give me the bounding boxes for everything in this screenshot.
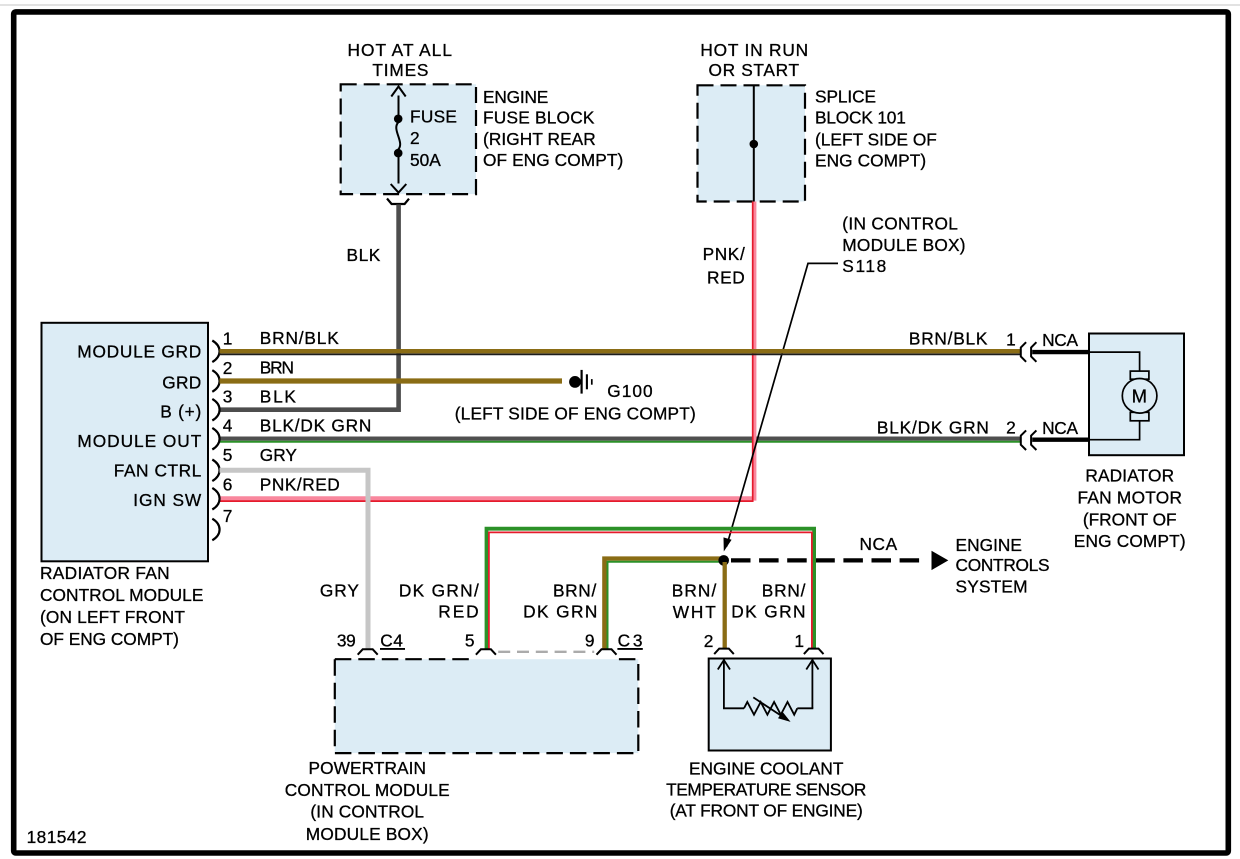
connector line C4-C3 (gray dashed) [498, 651, 594, 653]
svg-text:NCA: NCA [1042, 330, 1079, 350]
module pin label MODULE GRD [77, 342, 201, 362]
svg-text:BLK: BLK [347, 245, 381, 265]
svg-text:9: 9 [585, 631, 595, 651]
splice S118 [718, 555, 729, 566]
wire NCA dashed S118 to engine controls [731, 551, 948, 570]
label (IN CONTROL MODULE BOX) S118 [842, 214, 966, 277]
svg-text:(AT FRONT OF ENGINE): (AT FRONT OF ENGINE) [670, 801, 864, 821]
svg-text:GRY: GRY [320, 580, 360, 600]
wire DK GRN/RED PCM pin 5 to sensor pin 1 [487, 529, 815, 650]
module pin label FAN CTRL [114, 461, 202, 481]
splice block junction dot [750, 140, 759, 149]
svg-text:6: 6 [223, 475, 233, 495]
svg-text:SYSTEM: SYSTEM [956, 577, 1029, 597]
svg-text:ENGINE: ENGINE [956, 535, 1023, 555]
svg-text:C3: C3 [618, 631, 643, 651]
module pin label GRD [162, 372, 202, 392]
PCM pin 39 C4 [337, 631, 405, 655]
svg-text:RED: RED [438, 602, 479, 622]
splice block internal wire [753, 85, 755, 201]
radiator fan control module box [42, 323, 209, 562]
svg-text:CONTROL MODULE: CONTROL MODULE [285, 780, 451, 800]
module pin label IGN SW [133, 490, 202, 510]
svg-text:RED: RED [707, 267, 745, 287]
svg-text:M: M [1132, 385, 1148, 406]
label DK GRN/RED [399, 580, 479, 621]
svg-text:BRN/: BRN/ [672, 581, 717, 601]
svg-text:TIMES: TIMES [372, 60, 429, 80]
svg-text:ENGINE: ENGINE [483, 87, 549, 107]
wire BLK fuse to B(+) [220, 205, 399, 410]
PCM pin 5 [465, 631, 496, 655]
label BRN (left) [260, 358, 295, 378]
label BRN/BLK (right) and pin 1 of motor [909, 329, 1016, 350]
thermistor RT1 [718, 660, 819, 722]
label G100 [607, 381, 653, 401]
svg-text:(IN CONTROL: (IN CONTROL [310, 802, 424, 822]
engine fuse block box [341, 84, 476, 194]
label (LEFT SIDE OF ENG COMPT) [455, 404, 697, 424]
svg-text:4: 4 [223, 415, 233, 435]
svg-text:C4: C4 [380, 631, 403, 651]
svg-text:HOT IN RUN: HOT IN RUN [700, 40, 808, 60]
svg-text:BLK/DK GRN: BLK/DK GRN [260, 415, 372, 435]
svg-text:BRN/: BRN/ [553, 580, 597, 600]
label POWERTRAIN CONTROL MODULE [285, 758, 451, 844]
label BLK (vertical wire) [347, 245, 381, 265]
svg-text:IGN SW: IGN SW [133, 490, 202, 510]
svg-text:DK GRN/: DK GRN/ [399, 580, 479, 600]
ground G100 [569, 370, 592, 394]
radiator fan motor box [1089, 334, 1184, 456]
label SPLICE BLOCK 101 [815, 87, 937, 171]
wire BLK/DK GRN pin 4 to motor [220, 439, 1021, 442]
svg-text:NCA: NCA [860, 534, 898, 554]
svg-text:(ON LEFT FRONT: (ON LEFT FRONT [40, 607, 186, 627]
svg-text:7: 7 [223, 506, 233, 526]
svg-text:OF ENG COMPT): OF ENG COMPT) [483, 150, 624, 170]
connector below fuse block [387, 199, 409, 205]
sensor pin 1 [794, 631, 823, 654]
svg-text:S118: S118 [842, 256, 887, 276]
label BRN/BLK (left) [260, 328, 340, 348]
module pin 7 [212, 506, 233, 541]
svg-text:FAN MOTOR: FAN MOTOR [1078, 488, 1183, 508]
label FUSE 2 50A [410, 106, 458, 170]
svg-text:1: 1 [223, 328, 233, 348]
svg-text:BLK: BLK [260, 387, 297, 407]
module pin 4 [212, 415, 233, 449]
svg-text:MODULE BOX): MODULE BOX) [842, 235, 966, 255]
label HOT AT ALL TIMES [348, 40, 453, 80]
svg-text:BRN/: BRN/ [762, 580, 806, 600]
splice block 101 box [698, 85, 806, 201]
label RADIATOR FAN CONTROL MODULE [40, 563, 204, 649]
svg-text:FUSE BLOCK: FUSE BLOCK [483, 108, 595, 128]
svg-text:OF ENG COMPT): OF ENG COMPT) [40, 629, 179, 649]
label BRN/WHT [672, 581, 717, 622]
svg-text:(RIGHT REAR: (RIGHT REAR [483, 129, 596, 149]
svg-text:50A: 50A [410, 150, 441, 170]
leader line to splice S118 [724, 263, 839, 551]
wire BRN/WHT S118 to sensor pin 2 [723, 562, 727, 649]
svg-text:BRN/BLK: BRN/BLK [909, 329, 988, 349]
svg-text:ENG COMPT): ENG COMPT) [1074, 531, 1186, 551]
sensor pin 2 [704, 631, 734, 654]
svg-text:FAN CTRL: FAN CTRL [114, 461, 202, 481]
svg-text:(IN CONTROL: (IN CONTROL [842, 214, 958, 234]
svg-text:GRY: GRY [260, 445, 298, 465]
svg-text:BRN/BLK: BRN/BLK [260, 328, 340, 348]
svg-text:RADIATOR: RADIATOR [1085, 465, 1174, 485]
svg-text:39: 39 [337, 631, 356, 651]
svg-text:DK GRN: DK GRN [731, 602, 806, 622]
svg-text:CONTROL MODULE: CONTROL MODULE [40, 585, 204, 605]
svg-text:TEMPERATURE SENSOR: TEMPERATURE SENSOR [666, 780, 867, 800]
svg-text:ENG COMPT): ENG COMPT) [815, 151, 927, 171]
svg-text:MODULE OUT: MODULE OUT [77, 431, 201, 451]
module pin 1 [212, 328, 233, 362]
svg-text:FUSE: FUSE [410, 106, 458, 126]
label NCA (dashed wire) [860, 534, 898, 554]
wire BRN pin 2 to G100 [220, 378, 563, 383]
svg-text:MODULE GRD: MODULE GRD [77, 342, 201, 362]
svg-text:DK GRN: DK GRN [523, 602, 598, 622]
svg-text:GRD: GRD [162, 372, 202, 392]
svg-text:ENGINE COOLANT: ENGINE COOLANT [689, 758, 844, 778]
fuse F2 50A [391, 87, 407, 193]
label 181542 [27, 827, 88, 847]
in-line connector at motor pin 1 [1021, 330, 1090, 362]
svg-text:OR START: OR START [708, 60, 799, 80]
motor internal wiring [1090, 352, 1140, 440]
label BLK/DK GRN (right) and pin 2 of motor [877, 417, 1016, 437]
svg-text:(LEFT SIDE OF: (LEFT SIDE OF [815, 129, 937, 149]
label ENGINE FUSE BLOCK [483, 87, 624, 170]
svg-text:PNK/: PNK/ [703, 244, 746, 264]
svg-text:MODULE BOX): MODULE BOX) [306, 824, 429, 844]
svg-text:NCA: NCA [1042, 418, 1079, 438]
svg-text:BLK/DK GRN: BLK/DK GRN [877, 417, 990, 437]
svg-text:PNK/RED: PNK/RED [260, 475, 341, 495]
label RADIATOR FAN MOTOR [1074, 465, 1186, 551]
svg-text:BRN: BRN [260, 358, 295, 378]
engine coolant temperature sensor box [709, 659, 831, 751]
svg-text:2: 2 [704, 631, 714, 651]
svg-text:(FRONT OF: (FRONT OF [1083, 510, 1177, 530]
module pin label B (+) [160, 402, 202, 422]
motor M1 [1122, 371, 1157, 421]
module pin 2 [212, 358, 233, 392]
svg-text:5: 5 [465, 631, 475, 651]
powertrain control module box [335, 659, 639, 753]
label BRN/DK GRN (sensor) [731, 580, 806, 621]
svg-text:POWERTRAIN: POWERTRAIN [309, 758, 427, 778]
wire BRN/BLK pin 1 to motor [220, 351, 1021, 354]
in-line connector at motor pin 2 [1021, 418, 1090, 450]
svg-text:2: 2 [1006, 417, 1016, 437]
svg-text:CONTROLS: CONTROLS [956, 555, 1051, 575]
wire PNK/RED splice to IGN SW [220, 202, 755, 502]
module pin 5 [212, 445, 233, 481]
label PNK/RED (vertical wire) [703, 244, 746, 287]
svg-text:3: 3 [223, 387, 233, 407]
label PNK/RED (left) [260, 475, 341, 495]
svg-text:1: 1 [1006, 329, 1016, 349]
label GRY (bottom) [320, 580, 360, 600]
svg-text:1: 1 [794, 631, 804, 651]
PCM pin 9 C3 [585, 631, 643, 655]
svg-text:G100: G100 [607, 381, 653, 401]
label GRY (left) [260, 445, 298, 465]
label BLK/DK GRN (left) [260, 415, 372, 435]
label BRN/DK GRN (PCM) [523, 580, 598, 621]
svg-text:181542: 181542 [27, 827, 88, 847]
svg-text:BLOCK 101: BLOCK 101 [815, 108, 906, 128]
module pin 6 [212, 475, 233, 510]
svg-text:SPLICE: SPLICE [815, 87, 877, 107]
svg-text:5: 5 [223, 445, 233, 465]
svg-text:RADIATOR FAN: RADIATOR FAN [40, 563, 170, 583]
label HOT IN RUN OR START [700, 40, 808, 80]
svg-text:(LEFT SIDE OF ENG COMPT): (LEFT SIDE OF ENG COMPT) [455, 404, 697, 424]
module pin 3 [212, 387, 233, 421]
wire GRY pin 5 to PCM pin 39 [220, 470, 369, 649]
svg-text:2: 2 [223, 358, 233, 378]
svg-text:WHT: WHT [673, 602, 717, 622]
svg-text:HOT AT ALL: HOT AT ALL [348, 40, 453, 60]
label BLK (left) [260, 387, 297, 407]
svg-text:2: 2 [410, 128, 420, 148]
label ENGINE CONTROLS SYSTEM [956, 535, 1051, 597]
label ENGINE COOLANT TEMPERATURE SENSOR [666, 758, 867, 820]
svg-text:B (+): B (+) [160, 402, 202, 422]
wire BRN/DK GRN PCM pin 9 to S118 [604, 559, 721, 650]
module pin label MODULE OUT [77, 431, 201, 451]
